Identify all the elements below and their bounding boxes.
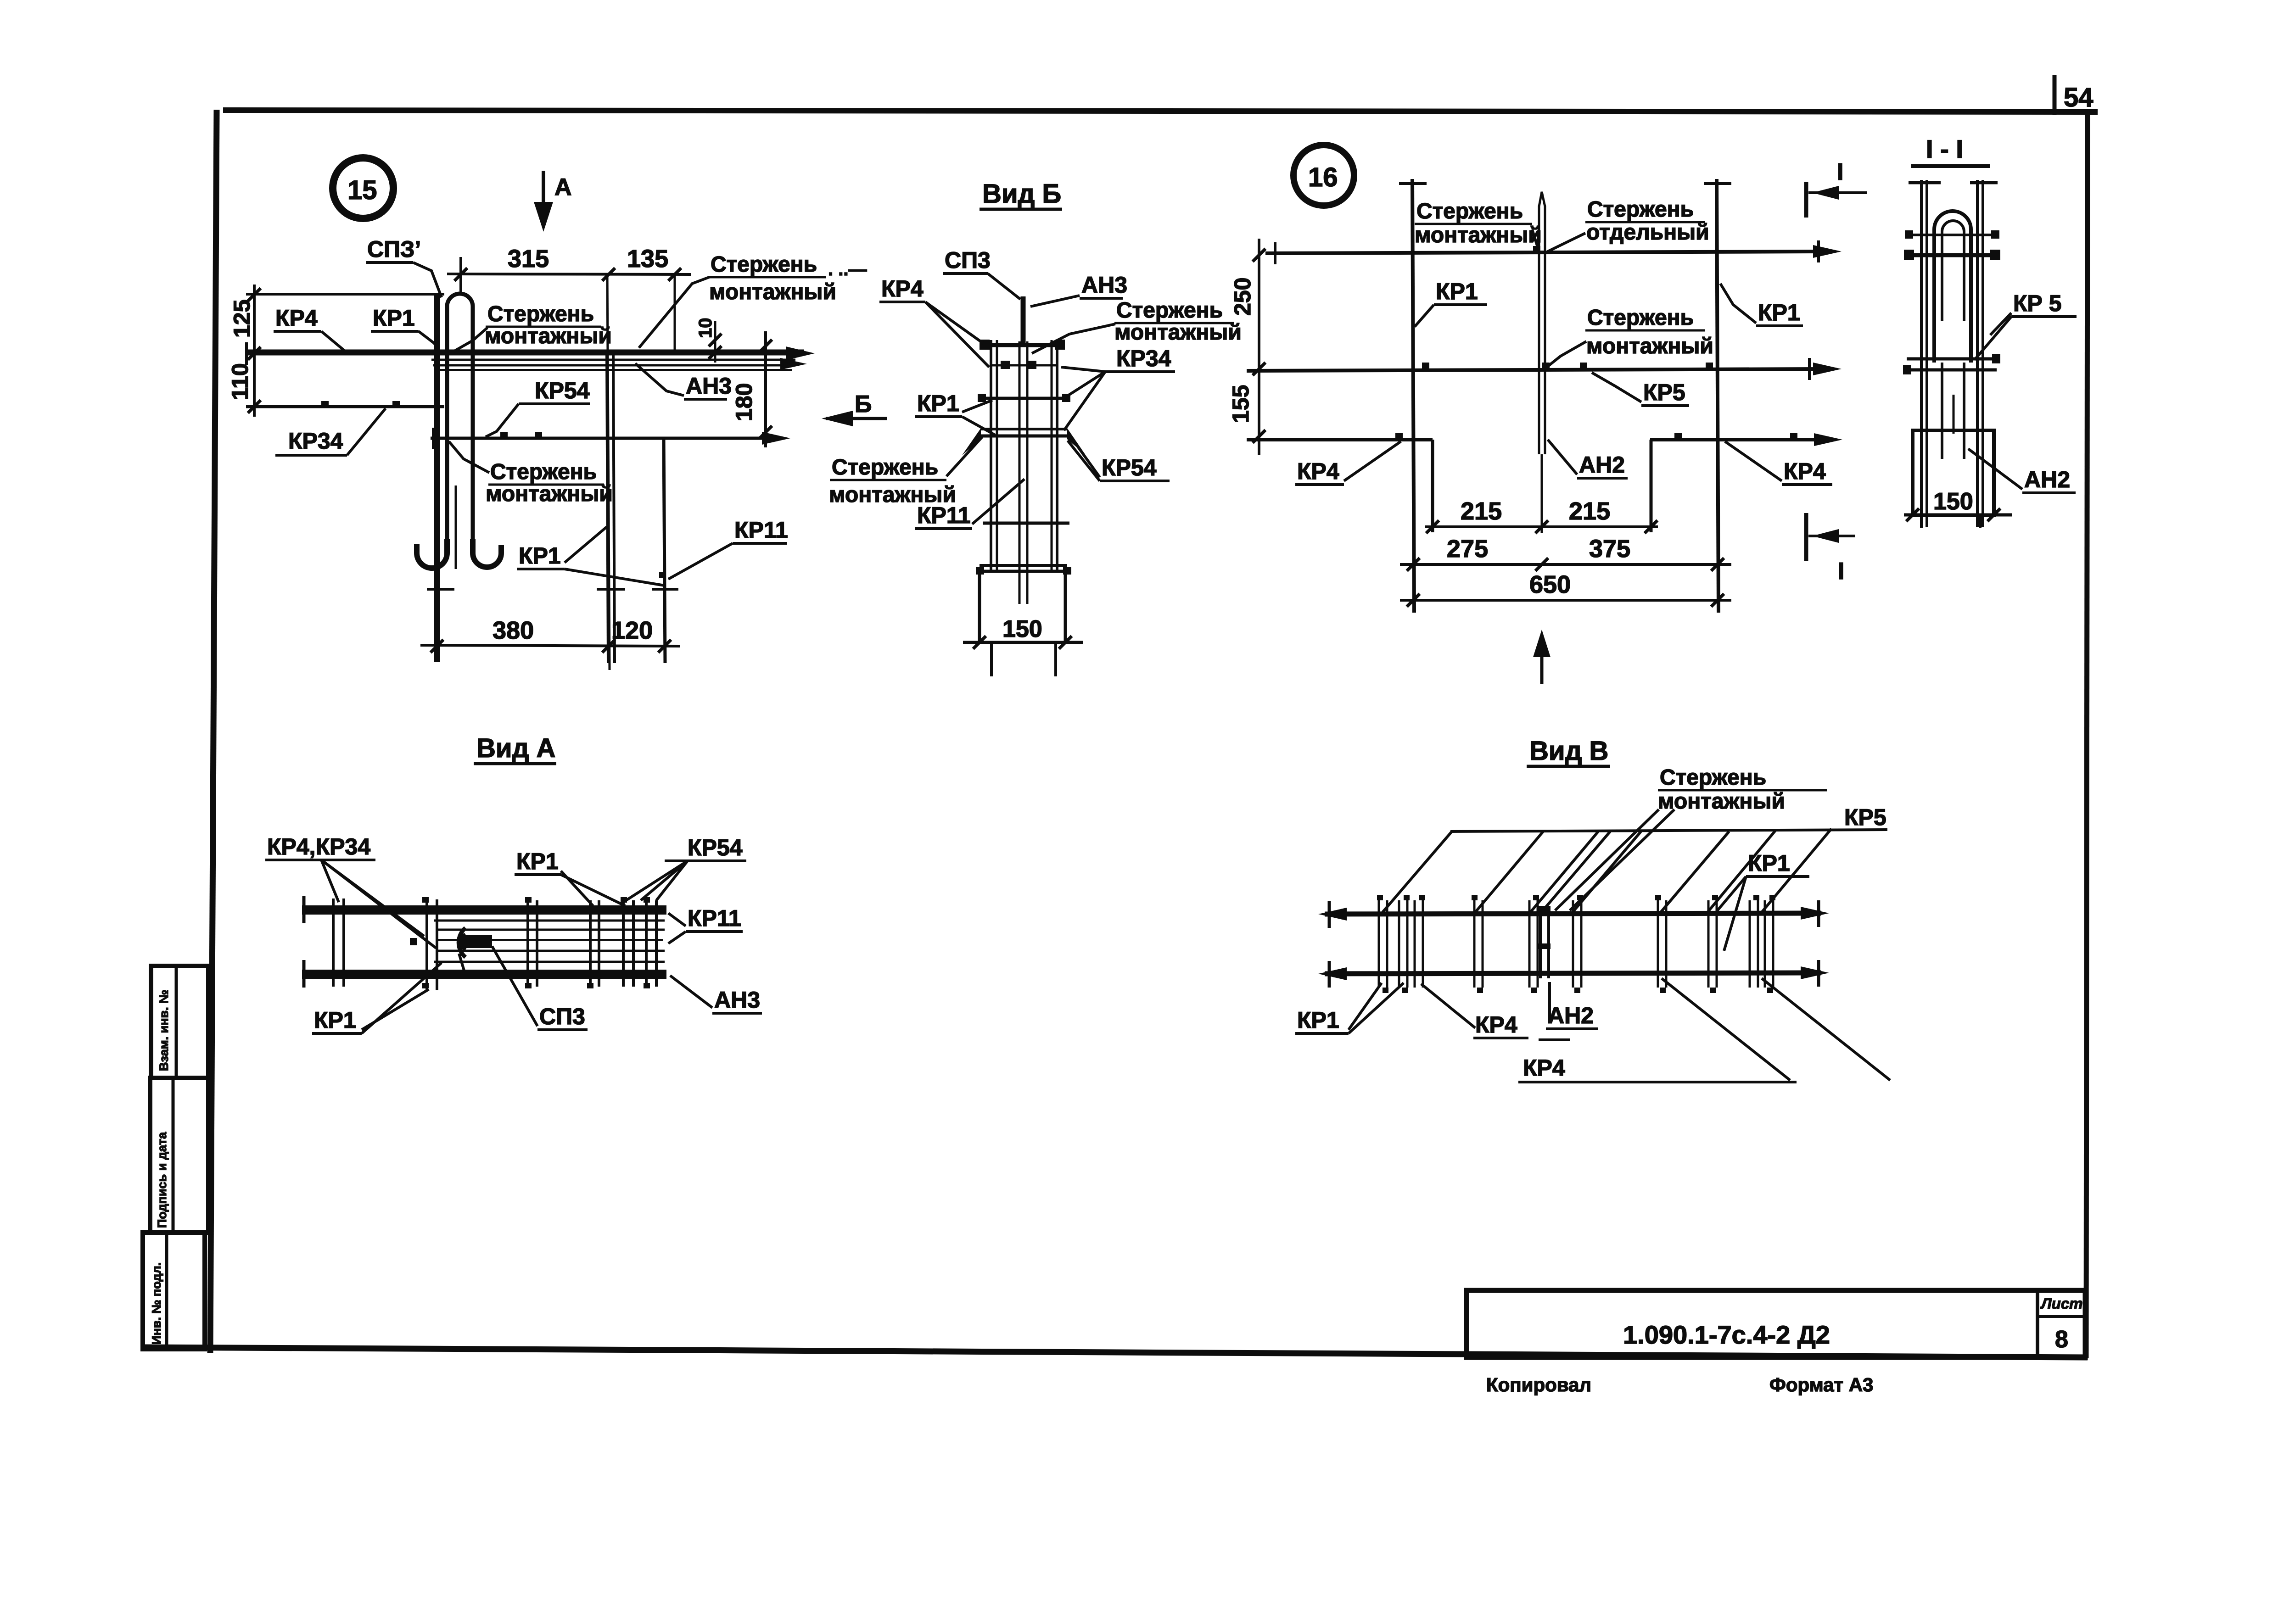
detail 16 dim 215 215	[1425, 497, 1658, 533]
svg-text:КР4,КР34: КР4,КР34	[267, 834, 370, 859]
section mark I bottom	[1806, 513, 1855, 585]
svg-text:Лист: Лист	[2040, 1295, 2083, 1312]
Vid B label KP1	[915, 391, 995, 435]
svg-text:монтажный: монтажный	[709, 280, 836, 304]
label KP54 detail 15	[486, 378, 590, 437]
svg-text:I - I: I - I	[1926, 134, 1963, 163]
Vid B label Sterjen montajny left	[829, 437, 982, 507]
main top rebar bundle	[246, 342, 815, 370]
Vid B legs below	[991, 642, 1056, 676]
svg-text:КР5: КР5	[1844, 804, 1886, 830]
bottom J hooks	[417, 539, 501, 568]
label SP3' detail 15	[366, 236, 442, 297]
detail 16 lower rebar right segment	[1650, 433, 1842, 446]
Vid B dashed row	[991, 361, 1056, 369]
detail 16 dim 650	[1400, 571, 1731, 607]
svg-text:250: 250	[1230, 278, 1255, 316]
I-I label AH2	[1968, 449, 2076, 493]
svg-text:АН2: АН2	[2024, 467, 2070, 492]
svg-text:10: 10	[695, 318, 716, 339]
detail 16 label Sterjen montajny top	[1415, 199, 1542, 250]
svg-text:16: 16	[1308, 162, 1338, 192]
svg-text:Инв. № подл.: Инв. № подл.	[150, 1262, 163, 1345]
svg-text:КР34: КР34	[1116, 346, 1171, 371]
detail 16 step verticals	[1433, 440, 1651, 532]
Vid B bottom box	[980, 571, 1065, 642]
svg-text:215: 215	[1461, 497, 1502, 525]
svg-text:СП3: СП3	[945, 247, 991, 273]
Vid B label AH3	[1030, 272, 1127, 307]
view title Vid B	[980, 179, 1062, 209]
Vid A hook and SP3 rod	[410, 928, 492, 972]
svg-text:А: А	[554, 174, 572, 201]
svg-text:125: 125	[229, 300, 255, 338]
label KP1 bottom detail 15	[517, 527, 665, 586]
svg-text:I: I	[1837, 159, 1843, 185]
view arrow A	[534, 171, 572, 232]
Vid A label AH3	[670, 976, 762, 1013]
section I-I title	[1911, 134, 1990, 166]
Vid B label SP3	[943, 247, 1020, 299]
title block	[1467, 1290, 2085, 1357]
svg-text:. ..—: . ..—	[828, 259, 867, 279]
svg-text:КР11: КР11	[917, 502, 971, 528]
Vid V label KP4 lower	[1518, 978, 1890, 1082]
view title Vid V	[1527, 736, 1610, 766]
svg-text:8: 8	[2055, 1326, 2068, 1353]
svg-text:Стержень: Стержень	[487, 302, 594, 326]
svg-text:КР34: КР34	[288, 428, 343, 454]
svg-text:КР1: КР1	[314, 1007, 356, 1033]
stamp box 2	[150, 1078, 208, 1233]
Vid V label KP1 bottom left	[1295, 983, 1404, 1033]
svg-text:монтажный: монтажный	[1658, 789, 1785, 814]
dim 180 right	[731, 331, 772, 447]
I-I flange 1	[1905, 230, 1999, 239]
montage rod vertical with hairpin	[437, 294, 473, 662]
I-I label KP5	[1975, 290, 2077, 360]
Vid V label Sterjen montajny	[1555, 765, 1827, 910]
footer texts	[1486, 1374, 1873, 1395]
vertical bar pair at x1322	[607, 352, 615, 663]
I-I inner legs below	[1942, 363, 1964, 459]
detail 16 label Sterjen montajny mid	[1547, 306, 1713, 367]
Vid A label KP4,KP34	[265, 834, 436, 948]
stamp box 1	[151, 966, 208, 1078]
Vid V top bar	[1318, 900, 1829, 928]
detail 16 label KP1 right	[1720, 284, 1803, 326]
label Sterjen montajny #3 lower	[449, 441, 613, 506]
Vid B dim 150	[963, 616, 1083, 649]
page number 54	[2054, 75, 2093, 115]
svg-text:Стержень: Стержень	[1587, 197, 1694, 222]
svg-text:КР4: КР4	[1475, 1012, 1517, 1038]
I-I legs below box	[1921, 515, 1980, 528]
view arrow B (letter Б) right of detail 15	[822, 391, 887, 426]
label KP11 detail 15	[659, 517, 788, 579]
detail 16 dim 275 375	[1400, 535, 1731, 571]
svg-text:Стержень: Стержень	[1587, 306, 1694, 330]
svg-text:КР5: КР5	[1643, 379, 1685, 405]
left dim 125 / 110	[227, 285, 444, 417]
Vid B lower flange	[976, 565, 1071, 575]
label KP34 detail 15	[275, 408, 386, 455]
dim 10 small	[695, 318, 722, 363]
Vid A label KP54	[626, 835, 746, 900]
Vid B mid flange KP54	[962, 428, 1085, 455]
svg-text:54: 54	[2064, 83, 2093, 112]
Vid B second bar	[978, 394, 1070, 402]
detail 16 label AH2	[1548, 440, 1628, 478]
Vid B label KP11	[915, 479, 1024, 529]
detail 16 middle rebar	[1247, 358, 1842, 380]
detail 16 left dim 250 / 155	[1228, 239, 1265, 455]
frame right border	[2086, 112, 2088, 1358]
Vid B column verticals	[991, 340, 1057, 604]
svg-text:Вид Б: Вид Б	[982, 179, 1061, 209]
svg-text:АН3: АН3	[686, 373, 732, 399]
stamp column boxes	[143, 966, 208, 1349]
svg-text:155: 155	[1228, 385, 1254, 423]
Vid V stirrup pairs	[1379, 900, 1773, 988]
svg-text:Копировал: Копировал	[1486, 1374, 1591, 1395]
Vid B label KP54	[1068, 435, 1170, 481]
svg-text:110: 110	[227, 363, 253, 400]
I-I mid flange	[1903, 354, 2000, 374]
svg-text:Б: Б	[855, 391, 872, 418]
svg-text:КР1: КР1	[1297, 1007, 1339, 1033]
frame left border	[210, 110, 217, 1353]
svg-text:СП3: СП3	[539, 1004, 585, 1029]
detail 16 central montage rod	[1539, 192, 1545, 533]
svg-text:КР 5: КР 5	[2013, 290, 2062, 316]
svg-text:650: 650	[1529, 571, 1571, 598]
I-I bottom box	[1913, 430, 1994, 515]
Vid B central rod SP3	[1021, 296, 1026, 343]
svg-text:отдельный: отдельный	[1586, 220, 1709, 245]
Vid V KP5 upper line	[1450, 804, 1887, 832]
Vid A cage thin bars	[434, 921, 665, 962]
svg-text:монтажный: монтажный	[1415, 223, 1542, 247]
detail 16 lower rebar left segment	[1247, 433, 1433, 440]
svg-text:КР11: КР11	[734, 517, 788, 543]
detail 16 main vertical right KP1	[1704, 179, 1731, 613]
detail 16 label KP1 left	[1415, 279, 1487, 327]
Vid A stirrup pairs	[333, 897, 656, 990]
Vid V plate diagonals	[1383, 829, 1831, 912]
I-I outer verticals	[1909, 180, 1998, 527]
svg-text:Стержень: Стержень	[1660, 765, 1766, 790]
bottom dim 380 / 120	[420, 617, 680, 653]
Vid A label KP11	[668, 905, 743, 943]
svg-text:КР4: КР4	[275, 305, 318, 331]
Vid A top bar	[302, 896, 666, 923]
svg-text:КР1: КР1	[516, 848, 559, 874]
svg-text:АН3: АН3	[714, 987, 760, 1013]
mid rebar right	[431, 428, 790, 449]
detail 16 main vertical left KP1	[1399, 179, 1427, 613]
svg-text:КР54: КР54	[535, 378, 590, 403]
section mark I top	[1806, 159, 1867, 218]
sheet frame	[143, 110, 2098, 1358]
Vid A bottom bar	[302, 960, 666, 988]
stamp box 3	[143, 1233, 205, 1349]
svg-text:монтажный: монтажный	[486, 482, 613, 506]
Vid V label AH2	[1546, 982, 1598, 1029]
svg-text:КР4: КР4	[1297, 458, 1339, 484]
view title Vid A	[474, 733, 556, 764]
label Sterjen montajny #2 top right	[639, 252, 867, 348]
svg-text:КР1: КР1	[519, 543, 561, 569]
svg-text:Вид В: Вид В	[1529, 736, 1608, 766]
svg-text:215: 215	[1569, 497, 1610, 525]
Vid A label KP1 bottom	[312, 963, 442, 1033]
I-I dim 150	[1904, 488, 2012, 521]
detail 16 bottom up arrow	[1533, 630, 1551, 684]
detail 16 label KP4 right	[1725, 441, 1832, 485]
frame top border	[223, 110, 2098, 112]
I-I hairpin	[1934, 211, 1971, 363]
detail 16 top rebar	[1265, 240, 1842, 264]
svg-text:СПЗ’: СПЗ’	[367, 236, 421, 262]
detail 16 label KP4 left	[1295, 441, 1401, 485]
frame bottom border	[143, 1347, 2088, 1357]
detail 15 circle marker	[333, 158, 393, 218]
svg-text:Вид А: Вид А	[476, 733, 555, 763]
svg-text:Стержень: Стержень	[1416, 199, 1523, 223]
svg-text:КР1: КР1	[373, 305, 415, 331]
Vid B label Sterjen montajny right	[1032, 298, 1242, 353]
svg-text:КР4: КР4	[1784, 458, 1826, 484]
svg-text:КР1: КР1	[1748, 850, 1790, 876]
svg-text:120: 120	[611, 617, 653, 644]
svg-text:15: 15	[347, 175, 377, 205]
label Sterjen montajny #1	[453, 302, 612, 352]
svg-text:Стержень: Стержень	[711, 252, 817, 277]
svg-text:КР11: КР11	[688, 905, 741, 931]
detail 16 circle marker	[1293, 145, 1354, 206]
svg-text:КР1: КР1	[1758, 300, 1800, 325]
svg-text:КР1: КР1	[1436, 279, 1478, 304]
Vid B label KP4	[879, 276, 989, 367]
svg-text:КР4: КР4	[1523, 1055, 1565, 1081]
svg-text:135: 135	[627, 245, 668, 273]
svg-text:АН2: АН2	[1579, 452, 1625, 478]
svg-text:Стержень: Стержень	[490, 460, 597, 484]
rebar end cross ticks	[427, 588, 678, 591]
svg-text:150: 150	[1933, 488, 1973, 515]
Vid V label KP1 top right	[1717, 850, 1809, 951]
svg-text:380: 380	[493, 617, 534, 644]
dim 315 / 135 top of detail 15	[447, 245, 691, 294]
I-I flange 2	[1904, 250, 2000, 260]
svg-text:Стержень: Стержень	[832, 455, 938, 480]
svg-text:150: 150	[1002, 616, 1042, 642]
Vid A label KP1 top	[515, 848, 625, 906]
svg-text:КР54: КР54	[1102, 455, 1157, 480]
Vid A label SP3	[492, 946, 588, 1030]
svg-text:АН2: АН2	[1548, 1003, 1594, 1028]
Vid V label KP4 mid	[1421, 984, 1570, 1040]
Vid B top bar	[980, 340, 1065, 350]
svg-text:КР1: КР1	[917, 391, 959, 416]
svg-text:монтажный: монтажный	[1114, 320, 1242, 345]
Vid V stirrup end blobs	[1377, 895, 1775, 993]
label KP1 detail 15	[371, 305, 440, 352]
svg-text:I: I	[1838, 558, 1844, 585]
Vid B label KP34	[1061, 346, 1175, 430]
svg-text:1.090.1-7с.4-2 Д2: 1.090.1-7с.4-2 Д2	[1623, 1320, 1830, 1349]
Vid B lower crossbar	[983, 522, 1069, 525]
Vid V central anchor AH2	[1539, 906, 1551, 978]
label AH3 detail 15	[635, 363, 732, 399]
svg-text:180: 180	[731, 383, 757, 421]
svg-text:Взам. инв. №: Взам. инв. №	[157, 990, 171, 1071]
svg-text:монтажный: монтажный	[485, 324, 612, 348]
label KP4 detail 15	[274, 305, 349, 354]
detail 16 label KP5	[1592, 373, 1689, 406]
svg-text:монтажный: монтажный	[1586, 334, 1713, 358]
vertical bar KP11	[664, 438, 665, 663]
svg-text:315: 315	[508, 245, 549, 273]
left second rebar	[246, 401, 444, 407]
svg-text:Стержень: Стержень	[1116, 298, 1223, 323]
Vid V bottom bar	[1318, 960, 1829, 988]
svg-text:275: 275	[1447, 535, 1488, 563]
svg-text:Формат А3: Формат А3	[1769, 1374, 1873, 1395]
svg-text:КР54: КР54	[688, 835, 743, 860]
svg-text:АН3: АН3	[1081, 272, 1127, 298]
svg-text:Подпись и дата: Подпись и дата	[155, 1132, 169, 1228]
detail 16 label Sterjen otdelny	[1548, 197, 1709, 251]
extension lines detail 15 top	[607, 274, 675, 670]
svg-text:375: 375	[1589, 535, 1630, 563]
svg-text:КР4: КР4	[881, 276, 924, 301]
